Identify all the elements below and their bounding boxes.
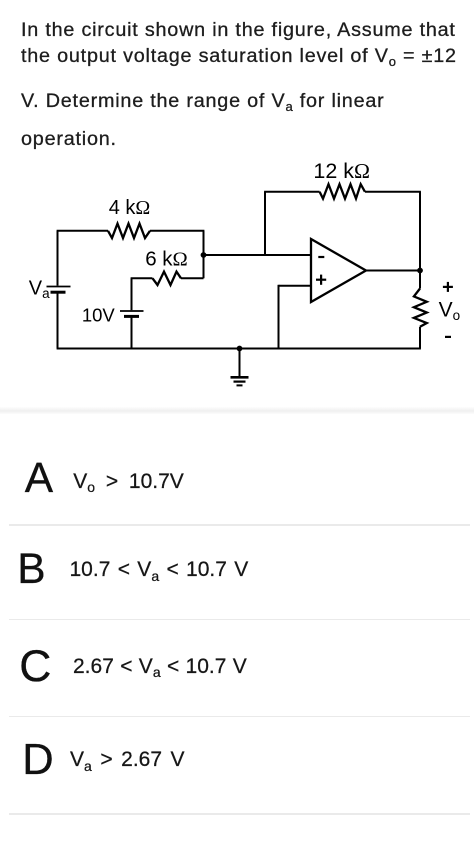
svg-text:Va: Va bbox=[29, 278, 50, 302]
svg-text:10V: 10V bbox=[82, 305, 116, 326]
svg-text:4 kΩ: 4 kΩ bbox=[109, 197, 151, 219]
svg-text:6 kΩ: 6 kΩ bbox=[145, 248, 188, 271]
svg-text:12 kΩ: 12 kΩ bbox=[313, 159, 370, 183]
svg-text:Vo: Vo bbox=[439, 299, 461, 324]
